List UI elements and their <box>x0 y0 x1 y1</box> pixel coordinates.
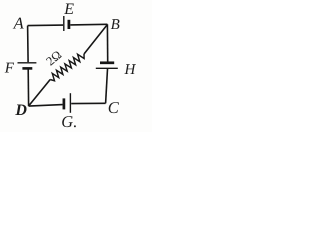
svg-text:F: F <box>4 61 15 77</box>
battery G short thick plate <box>63 98 66 109</box>
wire bottom edge right (G to C) <box>71 102 105 104</box>
battery H long plate <box>96 67 118 69</box>
svg-text:B: B <box>111 17 120 33</box>
wire top edge left (A to E) <box>28 24 64 27</box>
svg-text:D: D <box>14 102 27 119</box>
battery F long plate <box>18 62 37 64</box>
wire diagonal lower (D to resistor) <box>29 80 51 107</box>
battery G long plate <box>69 93 71 113</box>
resistor R 2 ohm zigzag <box>50 54 84 81</box>
battery F short thick plate <box>22 67 32 70</box>
wire left edge upper (A to F) <box>27 26 30 63</box>
svg-text:H: H <box>124 62 137 78</box>
wire right edge upper (B to H) <box>106 24 108 61</box>
wire bottom edge left (D to G) <box>29 105 63 107</box>
svg-text:G.: G. <box>61 112 77 131</box>
svg-text:C: C <box>108 98 120 117</box>
wire top edge right (E to B) <box>70 23 107 26</box>
svg-text:A: A <box>13 13 25 32</box>
battery E long plate <box>63 16 65 31</box>
wire right edge lower (H to C) <box>106 69 108 103</box>
svg-text:E: E <box>63 1 74 18</box>
svg-text:2Ω: 2Ω <box>43 48 64 69</box>
battery H short thick plate <box>100 61 114 64</box>
battery E short thick plate <box>68 20 71 29</box>
wire left edge lower (F to D) <box>27 69 29 106</box>
wire diagonal upper (resistor to B) <box>84 25 107 55</box>
